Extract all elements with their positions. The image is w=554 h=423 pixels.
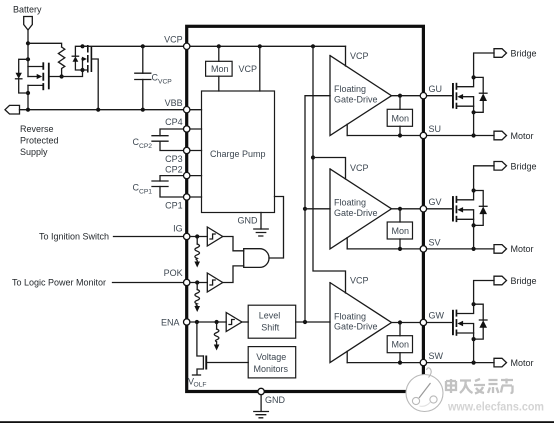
svg-text:Charge Pump: Charge Pump — [210, 149, 266, 159]
wire QW to bridge — [474, 281, 494, 305]
node input bus GV junction — [303, 207, 307, 211]
node SU-motor junction — [472, 133, 476, 137]
svg-text:CP3: CP3 — [165, 154, 183, 164]
svg-text:SW: SW — [429, 351, 444, 361]
bottom rule — [0, 421, 554, 423]
svg-text:Supply: Supply — [20, 147, 48, 157]
wire To Logic Power Monitor — [12, 278, 187, 288]
svg-text:SV: SV — [429, 238, 441, 248]
pin CP1 — [184, 194, 190, 200]
svg-text:VBB: VBB — [165, 98, 183, 108]
watermark logo circle — [406, 368, 443, 412]
wire GV row — [392, 208, 452, 210]
wire VCP bus to GV drive — [313, 158, 346, 180]
wire level shift output — [296, 321, 330, 323]
svg-text:SU: SU — [429, 124, 442, 134]
svg-text:Mon: Mon — [211, 64, 229, 74]
node ENA junction 2 — [215, 320, 219, 324]
zener D2 — [72, 46, 82, 70]
node battery mid junction — [26, 57, 30, 61]
wire VCP to charge pump — [259, 46, 261, 91]
node QW drain junction — [472, 302, 476, 306]
node QV source junction — [472, 223, 476, 227]
motor terminal U — [494, 131, 534, 141]
node CVCP top junction — [141, 44, 145, 48]
wire QV to bridge — [474, 166, 494, 191]
charge pump box — [202, 91, 275, 213]
node SW-Mon junction — [398, 361, 402, 365]
pin CP3 — [184, 147, 190, 153]
svg-text:Mon: Mon — [392, 226, 410, 236]
op-amp ENA schmitt buffer — [226, 313, 242, 332]
node QU drain junction — [472, 75, 476, 79]
svg-text:GND: GND — [238, 216, 259, 226]
node ENA junction 1 — [195, 320, 199, 324]
bridge terminal U — [494, 49, 537, 59]
IC box border U1 — [187, 26, 424, 391]
transistor Q2 — [82, 45, 98, 110]
transistor QU external bridge FET — [452, 77, 474, 112]
svg-text:To Ignition Switch: To Ignition Switch — [39, 232, 109, 242]
svg-text:Mon: Mon — [392, 340, 410, 350]
svg-text:Gate-Drive: Gate-Drive — [334, 322, 378, 332]
svg-text:Floating: Floating — [334, 198, 366, 208]
transistor V_OLF FET — [188, 322, 248, 389]
op-amp U4 floating gate drive W — [330, 276, 392, 363]
supply terminal (left) — [5, 105, 59, 157]
node VBB-battery junction — [26, 108, 30, 112]
capacitor C_CP2 — [133, 129, 187, 151]
svg-text:ENA: ENA — [161, 318, 180, 328]
capacitor C_CP1 — [133, 176, 187, 197]
resistor POK pulldown with arrow — [194, 283, 200, 313]
pin ENA — [184, 319, 190, 325]
svg-text:Motor: Motor — [511, 131, 534, 141]
svg-text:Level: Level — [259, 311, 281, 321]
node QU source junction — [472, 110, 476, 114]
Mon box V — [387, 209, 412, 249]
node VCP-chargepump junction — [258, 44, 262, 48]
capacitor C_VCP — [135, 46, 172, 109]
node POK pulldown junction — [195, 280, 199, 284]
svg-text:GV: GV — [429, 197, 442, 207]
wire To Ignition Switch — [39, 232, 187, 242]
svg-text:Bridge: Bridge — [511, 161, 537, 171]
pin VCP — [184, 43, 190, 49]
voltage monitors box — [248, 347, 296, 378]
svg-text:Bridge: Bridge — [511, 49, 537, 59]
op-amp U3 floating gate drive V — [330, 163, 392, 249]
op-amp IG schmitt buffer — [207, 227, 222, 246]
node GV mon junction — [398, 207, 402, 211]
resistor IG pulldown with arrow — [194, 237, 200, 268]
wire input bus to GV drive — [305, 208, 330, 210]
resistor ENA pulldown with arrow — [214, 322, 220, 351]
svg-text:Battery: Battery — [13, 5, 42, 15]
svg-text:POK: POK — [164, 268, 183, 278]
wire QU to bridge — [474, 53, 494, 77]
pin CP4 — [184, 126, 190, 132]
svg-text:Motor: Motor — [511, 244, 534, 254]
wire VCP bus — [313, 46, 346, 293]
wire charge pump pin stubs — [188, 110, 202, 197]
svg-text:OLF: OLF — [194, 382, 207, 389]
pin GU — [420, 93, 426, 99]
svg-text:CP1: CP1 — [139, 189, 152, 196]
watermark CJK text — [446, 379, 513, 394]
svg-text:VCP: VCP — [239, 64, 258, 74]
svg-text:Reverse: Reverse — [20, 124, 54, 134]
pin CP2 — [184, 172, 190, 178]
pin GW — [420, 319, 426, 325]
svg-text:To Logic Power Monitor: To Logic Power Monitor — [12, 278, 106, 288]
svg-text:GND: GND — [265, 395, 286, 405]
wire IG internal — [190, 236, 207, 238]
node SW-motor junction — [472, 361, 476, 365]
pin POK — [184, 279, 190, 285]
battery terminal — [13, 5, 42, 31]
bridge terminal W — [494, 276, 537, 286]
wire POK internal — [190, 282, 207, 284]
resistor R1 — [28, 43, 65, 76]
pin SW — [420, 359, 426, 365]
svg-text:IG: IG — [173, 224, 183, 234]
Mon box W — [387, 323, 412, 363]
node SV-motor junction — [472, 247, 476, 251]
svg-text:CP2: CP2 — [139, 143, 152, 150]
ground (charge pump GND) — [238, 213, 269, 237]
svg-text:GW: GW — [429, 311, 445, 321]
node SU-Mon junction — [398, 133, 402, 137]
node Q2 top junction — [80, 44, 84, 48]
wire battery column — [27, 30, 29, 110]
pin SV — [420, 246, 426, 252]
svg-text:VCP: VCP — [158, 79, 172, 86]
svg-text:GU: GU — [429, 84, 443, 94]
node IG pulldown junction — [195, 234, 199, 238]
AND gate (IG.POK) — [244, 249, 269, 268]
wire VCP drop to GU drive — [345, 46, 347, 66]
diode DV — [474, 191, 487, 226]
node VCP-Mon junction — [217, 44, 221, 48]
node VBB-Q2gate junction — [96, 108, 100, 112]
svg-text:Voltage: Voltage — [256, 352, 286, 362]
svg-text:VCP: VCP — [350, 163, 369, 173]
pin IG — [184, 233, 190, 239]
wire QU to motor row — [473, 112, 475, 135]
node QV drain junction — [472, 188, 476, 192]
svg-text:Floating: Floating — [334, 84, 366, 94]
node VCP-bus junction — [311, 44, 315, 48]
svg-text:VCP: VCP — [350, 276, 369, 286]
bridge terminal V — [494, 161, 537, 171]
op-amp U2 floating gate drive U — [330, 51, 392, 136]
node GU mon junction — [398, 94, 402, 98]
ground (GND pin) — [254, 395, 286, 418]
svg-text:Bridge: Bridge — [511, 276, 537, 286]
pin SU — [420, 132, 426, 138]
svg-text:CP4: CP4 — [165, 117, 183, 127]
node SV-Mon junction — [398, 247, 402, 251]
node VCP bus junction — [311, 155, 315, 159]
wire QW to motor row — [473, 339, 475, 363]
diode DU — [474, 77, 487, 112]
svg-text:www.elecfans.com: www.elecfans.com — [447, 400, 544, 414]
wire GW row — [392, 322, 452, 324]
pin GND — [258, 388, 264, 394]
svg-text:Protected: Protected — [20, 136, 59, 146]
transistor QV external bridge FET — [452, 191, 474, 226]
transistor Q1 (reverse protection FET) — [28, 62, 62, 90]
svg-text:VCP: VCP — [164, 35, 183, 45]
svg-text:VCP: VCP — [350, 51, 369, 61]
wire VBB rail — [20, 109, 187, 111]
wire QV to motor row — [473, 225, 475, 249]
node VBB-CVCP junction — [141, 108, 145, 112]
node battery top junction — [26, 41, 30, 45]
wire VCP rail inside — [187, 45, 346, 47]
wire IG buffer to AND — [223, 237, 244, 251]
svg-text:Floating: Floating — [334, 311, 366, 321]
node Q2 bottom junction — [80, 68, 84, 72]
motor terminal V — [494, 244, 534, 254]
level shift box — [242, 305, 296, 338]
diode DW — [474, 304, 487, 339]
pin VBB — [184, 107, 190, 113]
wire POK buffer to AND — [223, 266, 244, 283]
svg-text:Shift: Shift — [261, 323, 280, 333]
wire gate node to Q2 cluster — [62, 59, 83, 77]
wire VCP from Q2 to pin — [83, 45, 187, 47]
wire charge pump enable from AND gate — [269, 197, 284, 259]
svg-text:CP2: CP2 — [165, 165, 183, 175]
pin GV — [420, 206, 426, 212]
wire SW row — [347, 362, 494, 364]
wire GU row — [392, 95, 452, 97]
motor terminal W — [494, 358, 534, 368]
svg-text:Gate-Drive: Gate-Drive — [334, 208, 378, 218]
svg-text:Monitors: Monitors — [254, 364, 289, 374]
node level shift output junction — [303, 320, 307, 324]
svg-text:Motor: Motor — [511, 358, 534, 368]
wire ENA internal — [190, 321, 226, 323]
op-amp POK schmitt buffer — [207, 273, 222, 292]
node GW mon junction — [398, 320, 402, 324]
wire input bus — [305, 96, 330, 322]
Mon box U — [387, 96, 412, 136]
svg-text:Gate-Drive: Gate-Drive — [334, 95, 378, 105]
node battery low junction — [26, 91, 30, 95]
wire SV row — [347, 248, 494, 250]
Mon box (charge pump monitor) — [206, 46, 233, 91]
diode D1 — [16, 59, 29, 93]
wire SU row — [347, 135, 494, 137]
svg-text:CP1: CP1 — [165, 201, 183, 211]
node QW source junction — [472, 337, 476, 341]
svg-text:Mon: Mon — [392, 113, 410, 123]
transistor QW external bridge FET — [452, 304, 474, 339]
node R1/Q1 gate junction — [60, 74, 64, 78]
